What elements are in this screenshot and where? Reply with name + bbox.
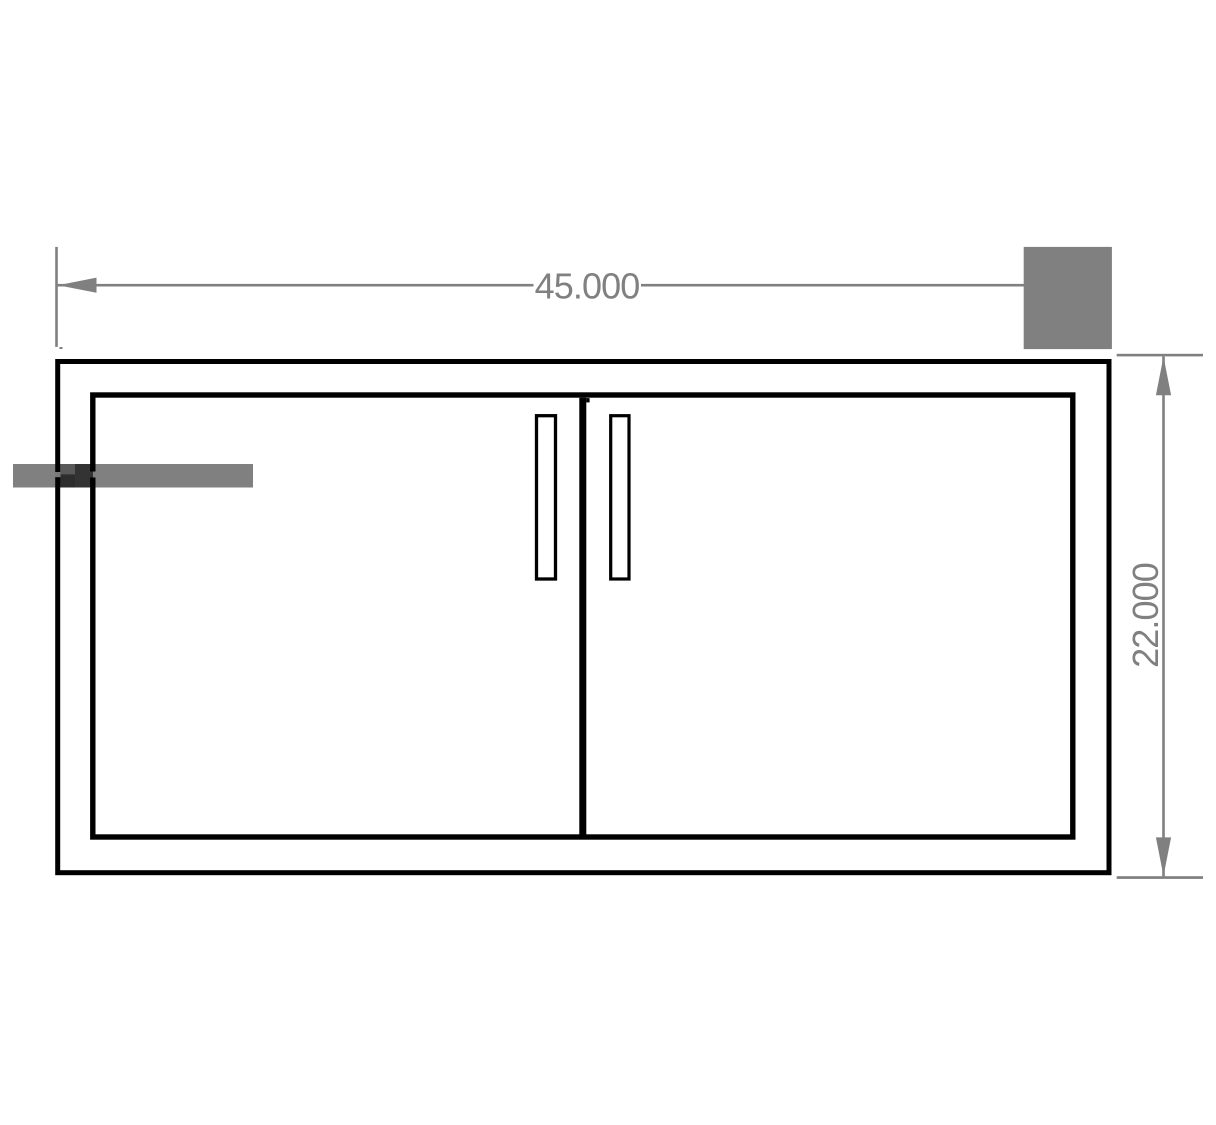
dimension 22.000 : up arrowhead <box>1156 357 1171 396</box>
svg-text:45.000: 45.000 <box>535 266 640 307</box>
dimension 45.000 : line right segment <box>641 284 1024 287</box>
center door divider <box>579 398 586 838</box>
highlight bar dark patch lower-left <box>60 474 75 487</box>
outer cabinet frame <box>58 362 1109 873</box>
dimension 22.000 : top extension line <box>1117 354 1203 357</box>
divider top-right nub <box>586 398 589 402</box>
right door handle <box>611 416 629 579</box>
gray redaction square (covers right arrowhead) <box>1024 247 1112 349</box>
highlight bar dark patch right <box>75 464 91 488</box>
dimension 22.000 : bottom extension line <box>1117 876 1203 879</box>
dimension 45.000 : left arrowhead <box>58 278 97 293</box>
dimension 45.000 : line left segment <box>57 284 534 287</box>
svg-text:22.000: 22.000 <box>1125 563 1166 668</box>
dimension 45.000 : left extension line <box>55 247 58 347</box>
dimension 22.000 : down arrowhead <box>1156 837 1171 876</box>
small tick below extension line <box>60 347 63 349</box>
door panel outline (inner rectangle) <box>93 395 1073 837</box>
dimension 22.000 : vertical line <box>1162 356 1165 876</box>
highlight bar dark patch upper-left <box>60 464 75 474</box>
door outline left edge gap at highlight bar <box>90 472 93 478</box>
outer frame left edge gap at highlight bar <box>55 472 61 477</box>
door outline gap right part <box>93 472 96 478</box>
highlight bar (gray) left <box>13 464 253 488</box>
left door handle <box>537 416 556 579</box>
